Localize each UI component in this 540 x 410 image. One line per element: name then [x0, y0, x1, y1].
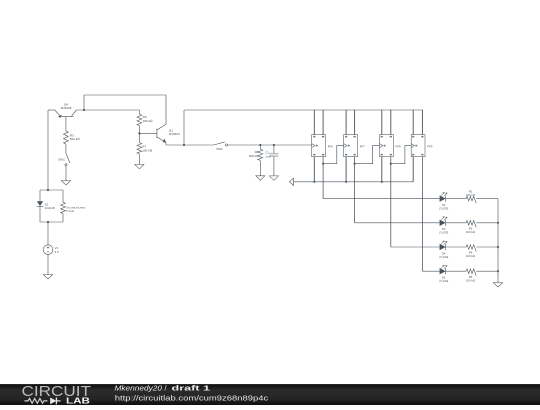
- svg-text:FF6: FF6: [328, 144, 334, 148]
- wire: FF7 reset pin down to reset bus: [345, 157, 347, 182]
- voltage source V1 9V: [43, 245, 53, 255]
- resistor R4 100k: [466, 245, 476, 252]
- wire: FF6 Q output down to LED row: [322, 157, 324, 199]
- node: jog junction: [390, 163, 392, 165]
- svg-text:LAB: LAB: [66, 396, 90, 405]
- svg-text:LTL-307EE: LTL-307EE: [439, 255, 448, 259]
- wire: LED to resistor: [446, 222, 467, 224]
- node: riser junction: [183, 144, 185, 146]
- svg-text:7mm_metal_film_resistor: 7mm_metal_film_resistor: [66, 205, 85, 209]
- capacitor C1 1uF: [273, 145, 275, 153]
- wire: Q4 emitter horizontal segment: [48, 109, 55, 111]
- wire: resistor to cathode bus: [476, 198, 498, 200]
- svg-text:100 kΩ: 100 kΩ: [466, 193, 475, 197]
- net flag (reset): [290, 178, 294, 185]
- node: jog junction: [354, 163, 356, 165]
- svg-text:100 kΩ: 100 kΩ: [466, 278, 475, 282]
- node: C1 tap: [273, 144, 275, 146]
- resistor R3 500k: [64, 131, 69, 144]
- svg-text:1 µF: 1 µF: [265, 154, 271, 158]
- LED D2 LTL-307EE: [440, 195, 446, 201]
- wire: FF8 Q to FF9 clock jog: [391, 145, 411, 163]
- svg-text:FF7: FF7: [360, 144, 366, 148]
- wire: LED row 1 anode: [323, 198, 440, 200]
- resistor R2 100k: [466, 221, 476, 228]
- resistor R5 100k: [466, 269, 476, 276]
- ground under SW1: [61, 181, 70, 185]
- wire: FF8 top pins to bus: [381, 110, 383, 135]
- wire: diode box bottom: [40, 221, 63, 223]
- wire: FF8 reset pin down to reset bus: [381, 157, 383, 182]
- resistor R6 200k: [138, 110, 140, 114]
- svg-text:5.1 kΩ: 5.1 kΩ: [66, 209, 74, 213]
- svg-text:100 kΩ: 100 kΩ: [466, 254, 475, 258]
- resistor R8 500k: [259, 145, 261, 149]
- node: R8 tap: [259, 144, 261, 146]
- LED D5 LTL-307EE: [440, 268, 446, 274]
- svg-text:1N4148: 1N4148: [45, 206, 55, 210]
- node: box bottom junction: [47, 221, 49, 223]
- svg-text:SW1: SW1: [58, 157, 65, 161]
- node: box top junction: [47, 189, 49, 191]
- logo resistor zigzag: [25, 399, 48, 404]
- svg-text:D5: D5: [442, 276, 446, 280]
- wire: FF9 Q output down to LED row: [421, 157, 423, 272]
- svg-text:500 kΩ: 500 kΩ: [70, 137, 81, 141]
- resistor 7mm_metal_film branch: [62, 190, 64, 202]
- diode D1 1N4148 branch: [39, 190, 41, 201]
- logo diode: [50, 398, 56, 405]
- node: junction Q4 collector / feedback riser: [83, 109, 85, 111]
- wire: cathode bus: [497, 199, 499, 283]
- wire: LED to resistor: [446, 198, 467, 200]
- wire: FF9 top pins to bus: [412, 110, 414, 135]
- ground at cathode bus: [493, 283, 502, 287]
- svg-text:Mkennedy20: Mkennedy20: [115, 383, 163, 392]
- flip-flop FF9: [411, 135, 425, 157]
- wire: Q4 collector to R6 top: [76, 109, 139, 111]
- wire: diode box top: [40, 189, 63, 191]
- wire: resistor to cathode bus: [476, 222, 498, 224]
- resistor R1 100k: [466, 196, 476, 203]
- wire: FF7 Q output down to LED row: [354, 157, 356, 223]
- flip-flop FF6: [312, 135, 326, 157]
- wire: FF6 reset pin down to reset bus: [313, 157, 315, 182]
- svg-text:FF8: FF8: [396, 144, 402, 148]
- svg-text:draft 1: draft 1: [172, 383, 211, 392]
- svg-text:D3: D3: [442, 227, 446, 231]
- svg-text:9 V: 9 V: [55, 250, 59, 254]
- wire: LED row 4 anode: [422, 270, 439, 272]
- ground under R8: [256, 176, 265, 180]
- svg-text:/: /: [165, 383, 167, 392]
- wire: riser to FF top bus: [183, 110, 185, 145]
- svg-text:D4: D4: [442, 251, 446, 255]
- transistor Q1 (NPN 2N3904): [157, 124, 166, 143]
- node: reset taps: [313, 181, 315, 183]
- svg-text:SW2: SW2: [216, 147, 223, 151]
- ground under C1: [269, 176, 278, 180]
- wire: Q1 emitter to main line: [165, 143, 167, 145]
- wire: FF7 top pins to bus: [345, 110, 347, 135]
- flip-flop FF8: [380, 135, 394, 157]
- wire: FF8 Q output down to LED row: [390, 157, 392, 247]
- svg-text:2N3904: 2N3904: [169, 132, 180, 136]
- wire: resistor to cathode bus: [476, 246, 498, 248]
- wire: LED to resistor: [446, 246, 467, 248]
- svg-text:D2: D2: [442, 203, 446, 207]
- flip-flop FF7: [344, 135, 358, 157]
- switch SW1: [66, 153, 70, 163]
- wire: FF7 Q to FF8 clock jog: [355, 145, 380, 163]
- wire: LED to resistor: [446, 270, 467, 272]
- wire: feedback loop top (to Q1 collector): [84, 95, 166, 124]
- wire: base of Q1: [139, 132, 157, 134]
- wire: left vertical from Q4 emitter down to diode box: [47, 110, 49, 190]
- LED D3 LTL-307EE: [440, 220, 446, 226]
- wire: box to V1: [47, 222, 49, 245]
- svg-text:500 kΩ: 500 kΩ: [249, 154, 259, 158]
- wire: FF top bus: [184, 109, 422, 111]
- wire: SW2 to FF1 clock: [228, 144, 312, 146]
- switch SW2: [214, 142, 225, 145]
- wire: reset bus: [294, 181, 414, 183]
- ground under V1: [43, 275, 52, 279]
- svg-text:LTL-307EE: LTL-307EE: [439, 279, 448, 283]
- node: jog junction: [322, 163, 324, 165]
- svg-text:200 kΩ: 200 kΩ: [143, 119, 154, 123]
- svg-text:LTL-307EE: LTL-307EE: [439, 231, 448, 235]
- transistor Q4 (PNP 2N3906): [55, 110, 77, 131]
- wire: LED row 3 anode: [391, 246, 440, 248]
- ground under R7: [135, 165, 144, 169]
- wire: FF9 reset pin down to reset bus: [412, 157, 414, 182]
- wire: resistor to cathode bus: [476, 270, 498, 272]
- svg-text:LTL-307EE: LTL-307EE: [439, 206, 448, 210]
- svg-text:2N3906: 2N3906: [61, 106, 72, 110]
- svg-text:http://circuitlab.com/cum9z68n: http://circuitlab.com/cum9z68n89p4c: [115, 394, 269, 403]
- svg-text:100 kΩ: 100 kΩ: [466, 230, 475, 234]
- wire: FF6 Q to FF7 clock jog: [323, 145, 344, 163]
- wire: FF6 top pins to bus: [313, 110, 315, 135]
- wire: V1 to ground: [47, 254, 49, 274]
- svg-text:FF9: FF9: [427, 144, 433, 148]
- resistor R7 100k: [138, 133, 140, 142]
- wire: SW1 to ground: [65, 166, 67, 181]
- footer bar: [0, 384, 540, 405]
- node: R6/R7/Q1 base: [138, 132, 140, 134]
- wire: main line to SW2: [166, 144, 214, 146]
- LED D4 LTL-307EE: [440, 244, 446, 250]
- svg-text:100 kΩ: 100 kΩ: [142, 148, 153, 152]
- wire: LED row 2 anode: [355, 222, 440, 224]
- node: cathode taps: [497, 222, 499, 224]
